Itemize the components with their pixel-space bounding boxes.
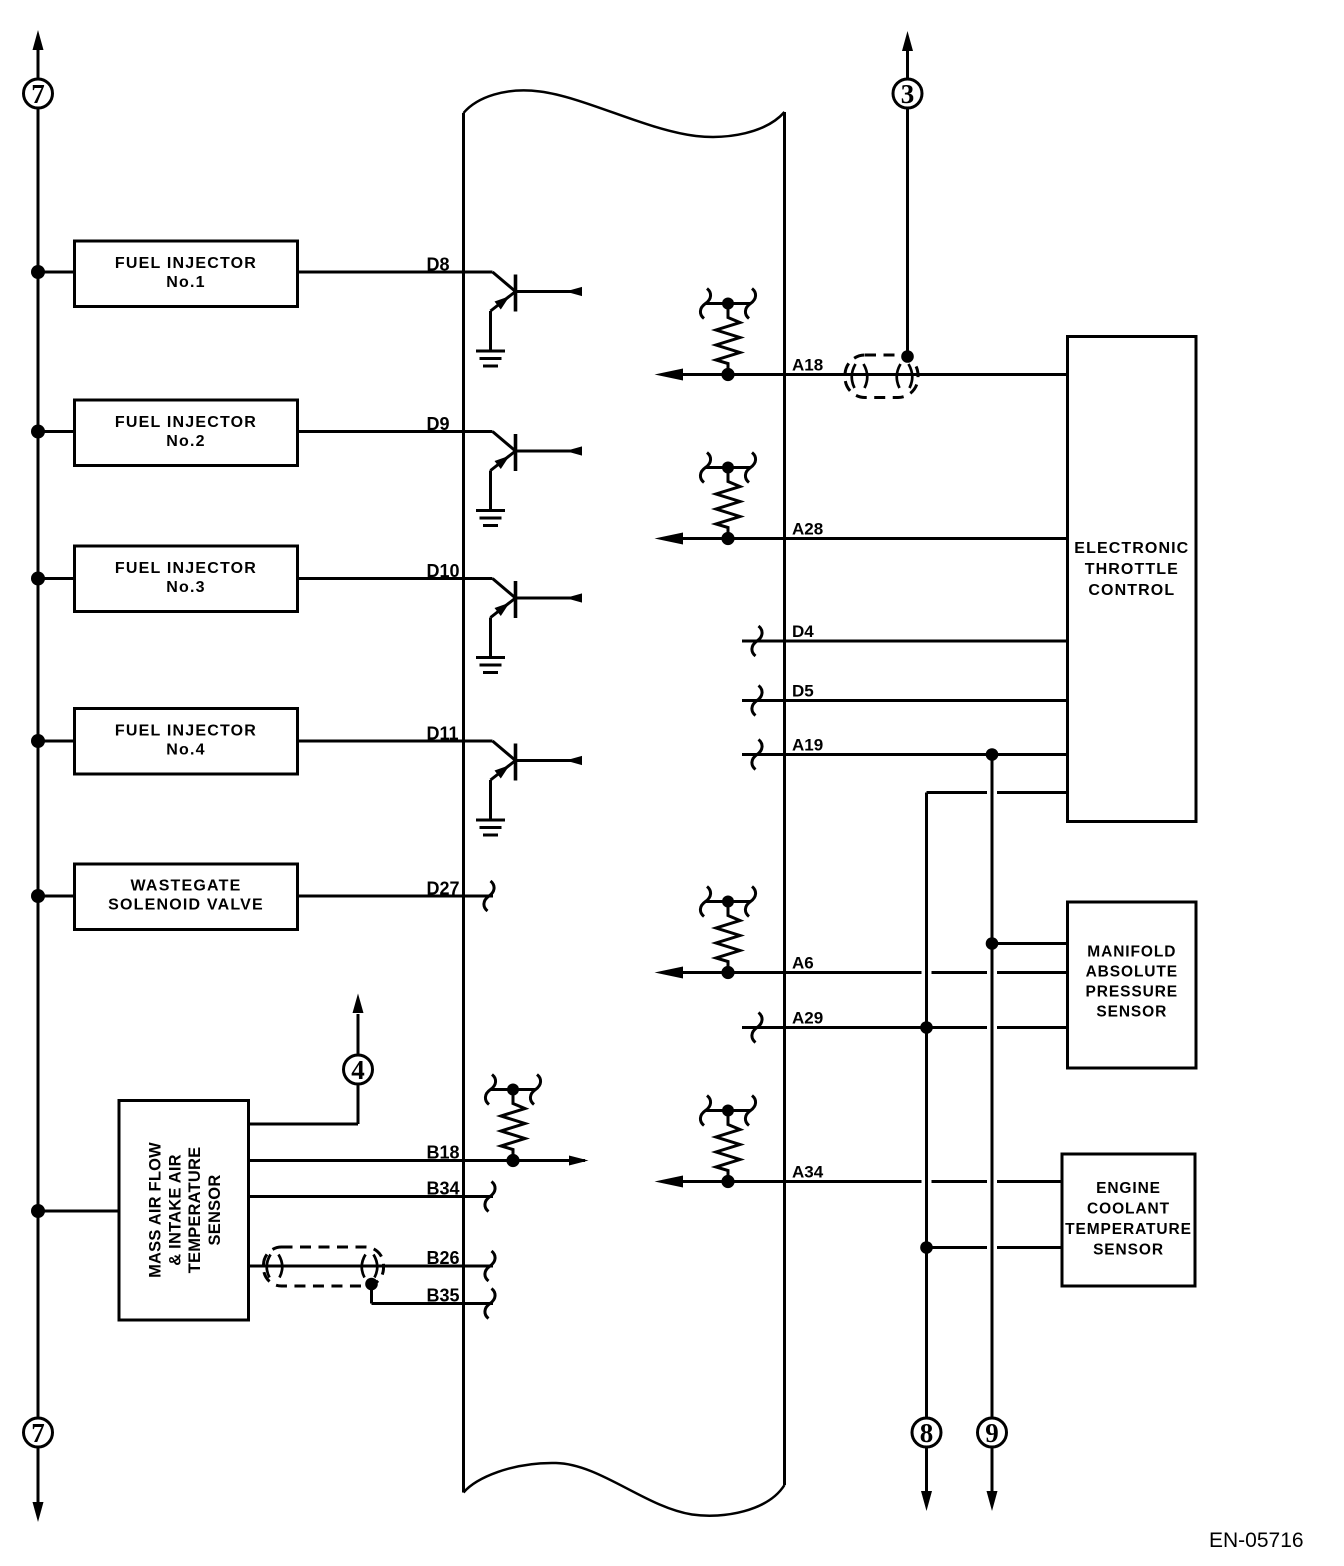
pin label B35 [427,1286,460,1306]
svg-text:FUEL INJECTOR: FUEL INJECTOR [115,414,257,431]
connector (dashed) on B26/B35 [264,1247,384,1290]
node 9 (circle) [978,1418,1007,1448]
svg-text:B34: B34 [427,1179,460,1199]
svg-text:D9: D9 [427,414,450,434]
svg-text:SOLENOID VALVE: SOLENOID VALVE [108,897,264,914]
pin label A34 [792,1163,824,1182]
svg-text:D10: D10 [427,561,460,581]
svg-text:THROTTLE: THROTTLE [1085,561,1179,578]
svg-text:B18: B18 [427,1143,460,1163]
svg-text:No.1: No.1 [166,274,205,291]
wire A6: ECM pin A6 to MAP sensor [655,967,1068,979]
node 3 top arrow [902,31,913,79]
svg-text:No.4: No.4 [166,742,205,759]
svg-text:TEMPERATURE: TEMPERATURE [186,1147,204,1274]
wire from node 3 down to connector [901,108,914,363]
node 7 (bottom circle) [24,1418,53,1448]
pin label D4 [792,622,814,641]
fuel injector box No.1 [75,241,298,307]
fuel injector box No.3 [75,546,298,612]
svg-text:D4: D4 [792,622,814,641]
node 7 rail top arrow [33,30,44,79]
resistor (pull-up on A34) [700,1096,755,1189]
break symbol on D5 [752,686,762,716]
svg-text:7: 7 [31,1418,45,1448]
svg-text:8: 8 [920,1418,934,1448]
wire B34: MAF sensor to ECM pin B34 [249,1195,494,1198]
wire rail to wastegate solenoid with junction [31,889,75,903]
engine coolant temperature sensor box [1062,1154,1195,1286]
resistor (pull-up on A18) [700,289,755,382]
wire rail to fuel injector No.1 with junction [31,265,75,279]
svg-text:TEMPERATURE: TEMPERATURE [1065,1221,1192,1238]
wire D9: injector to ECM pin D9 [298,430,493,433]
ground (Q2 emitter) [476,511,505,526]
svg-text:COOLANT: COOLANT [1087,1201,1170,1218]
wire rail to fuel injector No.2 with junction [31,425,75,439]
svg-text:ELECTRONIC: ELECTRONIC [1074,540,1189,557]
break symbol on A29 [752,1013,762,1043]
svg-text:7: 7 [31,79,45,109]
svg-text:D27: D27 [427,879,460,899]
pin label A28 [792,520,823,539]
svg-text:& INTAKE AIR: & INTAKE AIR [166,1154,184,1265]
svg-text:FUEL INJECTOR: FUEL INJECTOR [115,255,257,272]
wire ECM band left edge [462,113,465,1493]
node 8 (circle) [912,1418,941,1448]
electronic throttle control box [1068,337,1197,822]
wire A19: ECM pin A19 to electronic throttle control with junction [742,748,1068,761]
svg-text:FUEL INJECTOR: FUEL INJECTOR [115,560,257,577]
wire D10: injector to ECM pin D10 [298,577,493,580]
wire B18: MAF sensor to ECM pin B18 [249,1156,589,1166]
pin label A18 [792,356,823,375]
node 9 bottom arrow [987,1447,998,1511]
svg-text:CONTROL: CONTROL [1088,582,1175,599]
fuel injector box No.2 [75,400,298,466]
resistor (pull-up on A6) [700,887,755,980]
wire rail to fuel injector No.4 with junction [31,734,75,748]
svg-text:MASS AIR FLOW: MASS AIR FLOW [147,1142,165,1278]
svg-text:A18: A18 [792,356,823,375]
wire bus to node 8 [925,793,928,1419]
pin label B18 [427,1143,460,1163]
wire MAF sensor to node 4 [249,1084,359,1124]
pin label A29 [792,1009,823,1028]
svg-text:A34: A34 [792,1163,824,1182]
svg-text:WASTEGATE: WASTEGATE [131,878,242,895]
svg-text:MANIFOLD: MANIFOLD [1087,944,1176,961]
node 3 (circle) [893,79,922,109]
pin label D5 [792,682,814,701]
fuel injector box No.4 [75,709,298,775]
transistor Q1 (injector driver) [491,272,583,351]
svg-text:A28: A28 [792,520,823,539]
resistor (pull-up on B18) [485,1075,540,1168]
svg-text:9: 9 [985,1418,999,1448]
svg-text:FUEL INJECTOR: FUEL INJECTOR [115,723,257,740]
svg-text:SENSOR: SENSOR [206,1175,224,1246]
node 4 arrow [353,994,364,1056]
svg-text:B35: B35 [427,1286,460,1306]
svg-text:ABSOLUTE: ABSOLUTE [1086,964,1178,981]
wire A28: ECM pin A28 to electronic throttle control [655,533,1068,545]
wire B26: MAF sensor to ECM pin B26 [249,1265,494,1268]
node 7 rail bottom arrow [33,1447,44,1522]
svg-text:ENGINE: ENGINE [1096,1180,1161,1197]
svg-text:3: 3 [901,79,915,109]
svg-text:PRESSURE: PRESSURE [1086,984,1178,1001]
wastegate solenoid valve box [75,864,298,930]
wire rail to MAF sensor with junction [31,1204,119,1218]
svg-text:A6: A6 [792,954,814,973]
svg-text:No.3: No.3 [166,579,205,596]
wire rail to fuel injector No.3 with junction [31,572,75,586]
pin label D11 [427,724,459,744]
wire ECM band top wavy edge [464,90,785,136]
wire ECM band right edge [783,112,786,1485]
wire sensor ground bus to ECT sensor with junction [920,1241,1062,1254]
wire B35: connector branch to ECM pin B35 [372,1284,494,1304]
wire A29: ECM pin A29 to MAP sensor with junction [742,1021,1068,1034]
manifold absolute pressure sensor box [1068,902,1197,1068]
wire electronic throttle control to sensor ground bus [927,791,1068,794]
transistor Q3 (injector driver) [491,579,583,658]
wire A18: ECM pin A18 to electronic throttle control [655,369,1068,381]
svg-text:4: 4 [351,1055,365,1085]
connector (dashed) on A18 [845,355,918,398]
svg-text:No.2: No.2 [166,433,205,450]
node 7 (top circle) [24,79,53,109]
break symbol on B34 [485,1182,495,1212]
pin label D9 [427,414,450,434]
node 8 bottom arrow [921,1447,932,1511]
pin label B34 [427,1179,460,1199]
mass air flow &amp; intake air temperature sensor box [119,1101,249,1321]
wire D8: injector to ECM pin D8 [298,271,493,274]
pin label D10 [427,561,460,581]
wire bus to node 9 [991,755,994,1419]
pin label A6 [792,954,814,973]
wire left rail [37,108,40,1418]
wire D27: wastegate solenoid to ECM pin D27 [298,895,494,898]
transistor Q2 (injector driver) [491,432,583,511]
wire bus junction to MAP sensor supply [986,937,1068,950]
pin label D8 [427,255,450,275]
wire A34: ECM pin A34 to ECT sensor [655,1176,1063,1188]
wire D4: ECM pin D4 to electronic throttle control [742,640,1068,643]
node 4 (circle) [344,1055,373,1085]
svg-text:EN-05716: EN-05716 [1209,1529,1304,1552]
wire D5: ECM pin D5 to electronic throttle control [742,699,1068,702]
break symbol on B26 [485,1251,495,1281]
svg-text:D11: D11 [427,724,459,744]
svg-text:SENSOR: SENSOR [1096,1004,1167,1021]
ground (Q1 emitter) [476,351,505,366]
svg-text:D5: D5 [792,682,814,701]
pin label A19 [792,736,823,755]
svg-text:B26: B26 [427,1248,460,1268]
svg-text:A19: A19 [792,736,823,755]
break symbol on B35 [485,1289,495,1319]
ground (Q3 emitter) [476,658,505,673]
resistor (pull-up on A28) [700,453,755,546]
pin label D27 [427,879,460,899]
break symbol on D4 [752,626,762,656]
svg-text:SENSOR: SENSOR [1093,1242,1164,1259]
ground (Q4 emitter) [476,820,505,835]
figure number EN-05716 [1209,1529,1304,1552]
break symbol on A19 [752,740,762,770]
break symbol on D27 [484,881,494,911]
svg-text:D8: D8 [427,255,450,275]
wire D11: injector to ECM pin D11 [298,740,493,743]
svg-text:A29: A29 [792,1009,823,1028]
transistor Q4 (injector driver) [491,741,583,820]
wire ECM band bottom wavy edge [464,1463,785,1516]
pin label B26 [427,1248,460,1268]
